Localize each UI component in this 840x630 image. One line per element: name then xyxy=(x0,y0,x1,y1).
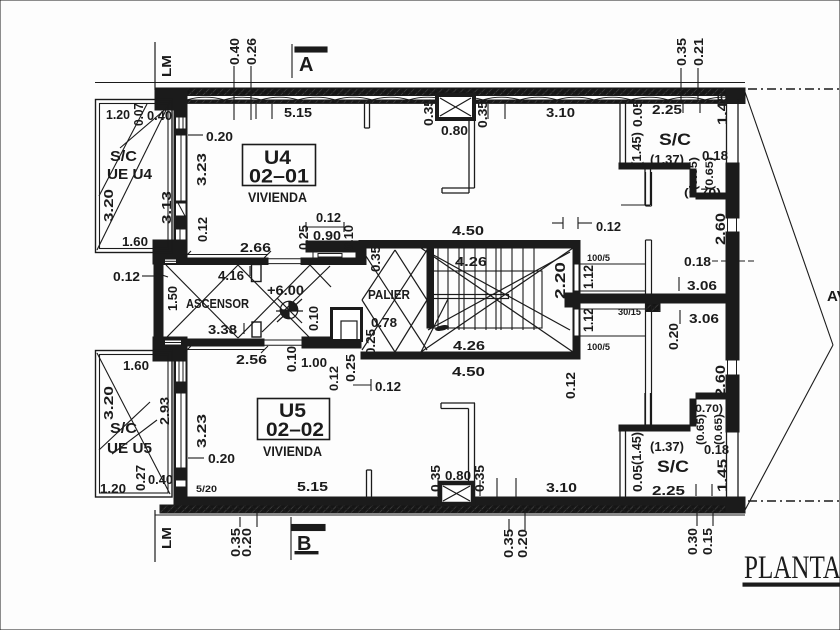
svg-text:(1.37): (1.37) xyxy=(650,439,684,454)
wall: right exterior upper segment xyxy=(726,163,739,218)
stair cross diagonals xyxy=(421,248,573,352)
ticks above bottom wall 5.15/3.10 xyxy=(496,478,498,497)
door leaf U5 xyxy=(252,322,261,337)
window sight lines right of stair (1.12 openings) xyxy=(580,264,646,336)
benchmark level symbol +6.00 xyxy=(276,298,303,323)
property line LM top xyxy=(95,82,745,84)
stair treads xyxy=(438,249,534,331)
svg-text:0.10: 0.10 xyxy=(284,346,299,372)
palier cross diagonals xyxy=(362,250,427,352)
door leaf U4 xyxy=(252,265,262,282)
dim line 2.66 xyxy=(187,254,268,256)
svg-text:4.26: 4.26 xyxy=(453,338,485,353)
svg-text:0.35: 0.35 xyxy=(421,99,436,126)
title underline xyxy=(743,583,840,586)
wall: pillar at palier corner xyxy=(357,241,366,265)
svg-text:0.30: 0.30 xyxy=(686,528,700,555)
svg-text:1.12: 1.12 xyxy=(580,308,596,332)
svg-text:U5: U5 xyxy=(279,401,306,422)
svg-text:(0.65): (0.65) xyxy=(713,414,725,445)
svg-text:2.60: 2.60 xyxy=(712,365,728,397)
svg-text:1.00: 1.00 xyxy=(301,355,327,370)
svg-text:3.23: 3.23 xyxy=(194,153,209,186)
svg-text:2.93: 2.93 xyxy=(157,397,172,425)
dim dash 0.20 U5 xyxy=(188,457,204,459)
vent slot corridor bottom-left xyxy=(165,340,182,345)
tick 2.25 top a xyxy=(682,101,684,113)
wall: corridor top right of door xyxy=(301,258,361,265)
dashed boundary top-right xyxy=(748,88,840,90)
svg-text:3.06: 3.06 xyxy=(689,311,719,326)
svg-text:LM: LM xyxy=(160,55,174,77)
svg-text:UE U5: UE U5 xyxy=(107,440,152,457)
column 30/15 hatched xyxy=(646,304,660,312)
svg-text:0.20: 0.20 xyxy=(516,529,530,558)
extension dash 0.30 bottom-right xyxy=(696,512,698,526)
window W4 U4 left xyxy=(176,229,187,240)
svg-text:(1.45): (1.45) xyxy=(629,132,644,166)
dim line 2.56 xyxy=(187,349,264,351)
elevator shaft cross diagonals xyxy=(166,265,331,338)
fixture line U4 bath xyxy=(621,204,650,206)
svg-text:0.25: 0.25 xyxy=(296,225,311,250)
svg-text:0.80: 0.80 xyxy=(441,123,468,138)
svg-text:0.90: 0.90 xyxy=(313,228,341,243)
ticks below top wall 5.15/3.10 xyxy=(487,104,489,119)
svg-text:5.15: 5.15 xyxy=(297,479,328,494)
window W2 U5 left double-line section xyxy=(176,393,187,468)
ticks 2.25 bottom S/C xyxy=(695,484,697,496)
extension dash 0.15 bottom-right xyxy=(712,512,714,526)
svg-text:0.27: 0.27 xyxy=(133,465,148,491)
svg-text:0.80: 0.80 xyxy=(445,468,471,483)
wall: top-left corner block xyxy=(155,88,187,110)
svg-text:0.20: 0.20 xyxy=(208,451,235,466)
svg-text:0.15: 0.15 xyxy=(701,528,715,555)
svg-text:0.20: 0.20 xyxy=(240,528,254,557)
svg-text:0.78: 0.78 xyxy=(371,315,397,330)
S/C UE U5 diagonal xyxy=(97,353,170,494)
wall: middle right separation xyxy=(573,294,734,303)
svg-text:0.35: 0.35 xyxy=(368,246,383,272)
svg-text:0.40: 0.40 xyxy=(227,38,242,65)
svg-text:0.12: 0.12 xyxy=(563,372,578,399)
wall: corridor left exterior xyxy=(154,253,163,345)
wall: S/C top-right step horizontal xyxy=(696,193,726,199)
stair direction arrow blob xyxy=(435,324,450,332)
svg-text:3.10: 3.10 xyxy=(546,105,575,120)
svg-text:3.38: 3.38 xyxy=(208,322,237,337)
svg-text:0.12: 0.12 xyxy=(375,379,401,394)
partition U-wall U5 (double) xyxy=(441,403,475,481)
svg-text:LM: LM xyxy=(160,527,174,549)
svg-text:0.35: 0.35 xyxy=(674,38,689,66)
svg-text:3.23: 3.23 xyxy=(194,414,209,448)
wall: niche band above palier door xyxy=(306,241,366,252)
mullion wall window zone (thin double) xyxy=(646,172,652,425)
svg-text:PLANTA: PLANTA xyxy=(744,550,840,586)
svg-text:0.10: 0.10 xyxy=(306,306,321,331)
tick 4.16 xyxy=(249,266,251,276)
dim line 0.12 niche U4 xyxy=(306,226,344,228)
stub wall below S/C top-right (double) xyxy=(645,169,651,205)
svg-text:2.60: 2.60 xyxy=(712,213,728,245)
stair inner guard rect xyxy=(429,271,543,328)
svg-text:0.25: 0.25 xyxy=(343,354,358,382)
svg-text:2.66: 2.66 xyxy=(240,240,271,255)
svg-text:0.18: 0.18 xyxy=(684,254,711,269)
section marker A line xyxy=(291,44,293,78)
stub wall U4 below top wall (double) xyxy=(365,103,370,128)
shaft box with X top (U4) xyxy=(437,95,474,119)
wall: right-bottom corner block xyxy=(726,497,745,512)
svg-text:100/5: 100/5 xyxy=(587,342,611,353)
wall: top-right corner block xyxy=(726,88,745,104)
dim dashes 0.18 middle right xyxy=(712,260,757,262)
extension line 0.20 bottom-mid xyxy=(524,511,526,530)
window right wall upper xyxy=(728,218,737,232)
svg-text:(1.37): (1.37) xyxy=(650,152,684,167)
svg-text:VIVIENDA: VIVIENDA xyxy=(248,189,307,205)
wall: right exterior middle segment xyxy=(726,232,739,360)
wall: bottom exterior inner leaf xyxy=(174,497,745,505)
svg-text:100/5: 100/5 xyxy=(587,253,611,264)
svg-text:0.35: 0.35 xyxy=(502,529,516,558)
svg-text:3.20: 3.20 xyxy=(101,386,116,420)
wall: stair right with windows xyxy=(573,241,580,359)
window W3 U5 left xyxy=(176,480,187,487)
svg-text:(0.70): (0.70) xyxy=(691,403,723,415)
wall: S/C top-right left partition (double) xyxy=(620,103,626,168)
svg-text:30/15: 30/15 xyxy=(618,307,642,318)
wall: right exterior hollow bottom (next to S/C) xyxy=(726,432,728,497)
wall: corridor top (U4 side) left of door xyxy=(163,258,268,265)
svg-text:0.05: 0.05 xyxy=(630,465,645,492)
svg-text:+6.00: +6.00 xyxy=(267,282,304,298)
wall: stair bottom xyxy=(361,352,580,359)
svg-text:02–02: 02–02 xyxy=(266,420,324,441)
svg-text:AV: AV xyxy=(827,288,840,305)
svg-text:1.20: 1.20 xyxy=(100,481,126,496)
stub wall above S/C bottom-right (double) xyxy=(645,393,651,425)
label U4 box xyxy=(243,145,316,186)
section marker A bar xyxy=(295,47,327,52)
svg-text:2.25: 2.25 xyxy=(652,483,685,498)
svg-text:(0.65): (0.65) xyxy=(695,414,707,445)
S/C UE U5 box border xyxy=(96,351,173,498)
svg-text:1.12: 1.12 xyxy=(580,265,596,289)
wall: S/C top-right step vertical xyxy=(690,169,696,197)
wall: right exterior hollow top (next to S/C) xyxy=(726,99,728,163)
tick 3.06 lower xyxy=(679,310,681,324)
svg-text:0.20: 0.20 xyxy=(666,323,681,350)
ticks 5.15 top interior xyxy=(255,104,257,119)
vent slot corridor top-left xyxy=(165,259,177,264)
svg-text:1.60: 1.60 xyxy=(122,234,148,249)
svg-text:2.56: 2.56 xyxy=(236,352,267,367)
svg-text:2.20: 2.20 xyxy=(552,262,569,299)
wall: U5 left exterior xyxy=(174,348,187,510)
extension line 0.21 top-right xyxy=(697,68,699,101)
svg-text:0.35: 0.35 xyxy=(475,101,490,128)
svg-text:3.20: 3.20 xyxy=(101,189,116,222)
window right wall lower xyxy=(728,360,737,375)
tick 3.06 upper xyxy=(678,277,680,291)
svg-text:S/C: S/C xyxy=(659,130,691,149)
svg-text:02–01: 02–01 xyxy=(249,167,309,188)
svg-text:A: A xyxy=(299,54,313,76)
svg-text:0.12: 0.12 xyxy=(195,217,210,242)
LM boundary tick bottom-left xyxy=(154,510,156,562)
svg-text:2.25: 2.25 xyxy=(652,102,682,117)
wall: right exterior lower-mid segment xyxy=(726,375,739,432)
label U5 box xyxy=(258,399,330,440)
duct box next to palier xyxy=(332,309,362,341)
svg-text:0.21: 0.21 xyxy=(691,38,706,66)
svg-text:ASCENSOR: ASCENSOR xyxy=(186,296,250,311)
svg-text:0.12: 0.12 xyxy=(316,210,341,225)
window W1 U5 left xyxy=(176,355,187,382)
insulation arcs in top wall cavity xyxy=(187,97,742,100)
svg-text:0.05: 0.05 xyxy=(630,100,645,127)
wall: U4-left bottom corner block xyxy=(153,240,187,264)
wall: U5-left top corner block xyxy=(153,337,187,361)
svg-text:0.20: 0.20 xyxy=(206,129,233,144)
svg-text:VIVIENDA: VIVIENDA xyxy=(263,443,322,459)
svg-text:S/C: S/C xyxy=(110,148,137,165)
extension line 0.20 bottom-left xyxy=(256,511,258,527)
tick 2.25 top b xyxy=(699,101,701,113)
svg-text:0.12: 0.12 xyxy=(596,219,621,234)
niche slot xyxy=(313,252,356,258)
shaft box with X bottom (U5) xyxy=(440,483,473,504)
svg-text:UE U4: UE U4 xyxy=(107,166,153,183)
door U5 entrance opening lines xyxy=(264,339,302,341)
projection diagonal from bottom-right corner xyxy=(745,345,833,510)
svg-text:0.40: 0.40 xyxy=(148,472,173,487)
wall: S/C bottom-right top xyxy=(619,425,690,431)
section marker B line xyxy=(290,517,292,560)
svg-text:1.60: 1.60 xyxy=(123,358,149,373)
wall: U4 left exterior xyxy=(174,88,187,253)
tick 3.38 xyxy=(243,323,245,334)
svg-text:4.26: 4.26 xyxy=(455,254,487,269)
S/C UE U4 diagonal xyxy=(97,102,170,250)
wall: corridor bottom (U5 side) left of door xyxy=(163,339,264,346)
underline under B xyxy=(295,552,318,554)
svg-text:S/C: S/C xyxy=(657,457,689,476)
extension line 0.35 top-right xyxy=(680,68,682,101)
svg-text:(0.65): (0.65) xyxy=(688,157,700,190)
svg-text:3.10: 3.10 xyxy=(546,480,577,495)
svg-text:0.07: 0.07 xyxy=(131,103,146,126)
svg-text:5/20: 5/20 xyxy=(196,484,217,495)
wall: S/C top-right bottom xyxy=(619,163,690,169)
extension line 0.26 top xyxy=(250,66,252,120)
leader 0.40 U4 xyxy=(120,107,168,148)
S/C UE U4 short diagonal xyxy=(99,104,147,196)
svg-text:3.13: 3.13 xyxy=(159,191,174,224)
svg-text:PALIER: PALIER xyxy=(368,287,411,302)
window W1 U4 left xyxy=(176,117,187,129)
dim 0.12 stair right xyxy=(552,222,563,224)
dashed boundary bottom-right xyxy=(748,500,840,502)
S/C UE U4 box border xyxy=(96,100,173,253)
leader 2.93 U5 xyxy=(112,420,157,454)
door U4 entrance opening lines xyxy=(268,258,301,260)
stub wall U5 above bottom wall (double) xyxy=(367,470,372,497)
window W2 U4 left double-line section xyxy=(176,135,187,201)
LM boundary tick top-left xyxy=(154,42,156,90)
wall: S/C bottom-right left partition (double) xyxy=(620,431,626,497)
svg-text:(1.45): (1.45) xyxy=(629,432,644,465)
svg-text:0.10: 0.10 xyxy=(341,225,356,250)
svg-text:1.20: 1.20 xyxy=(106,107,130,122)
svg-text:0.40: 0.40 xyxy=(147,108,172,123)
svg-text:0.35: 0.35 xyxy=(472,465,487,492)
dim dash 0.12 U5 xyxy=(353,384,371,386)
extension line 0.35 bottom-mid xyxy=(508,519,510,530)
wall: stair top xyxy=(359,241,580,249)
svg-text:4.50: 4.50 xyxy=(452,364,485,379)
svg-text:0.25: 0.25 xyxy=(363,329,378,355)
window W3 U4 left glazing xyxy=(176,203,187,216)
svg-text:3.06: 3.06 xyxy=(687,278,717,293)
wall: S/C bottom-right step vertical xyxy=(690,399,696,426)
property line bottom xyxy=(155,514,745,516)
svg-text:0.12: 0.12 xyxy=(327,366,341,391)
extension line 0.35 bottom-left xyxy=(239,517,241,527)
wall: top exterior inner leaf xyxy=(163,100,745,103)
S/C UE U5 short diagonal xyxy=(99,402,150,450)
svg-text:S/C: S/C xyxy=(110,420,137,437)
wall: top exterior hatched band xyxy=(155,88,745,96)
svg-text:(0.65): (0.65) xyxy=(704,157,716,190)
svg-text:1.45: 1.45 xyxy=(714,93,730,125)
projection diagonal from top-right corner xyxy=(745,92,833,345)
svg-text:0.35: 0.35 xyxy=(428,465,443,492)
ticks 5.15 bottom interior xyxy=(437,480,439,496)
tick corridor left wall xyxy=(156,273,168,277)
svg-text:4.16: 4.16 xyxy=(218,268,244,283)
svg-text:5.15: 5.15 xyxy=(284,105,312,120)
svg-text:4.50: 4.50 xyxy=(452,223,484,238)
wall: stair left xyxy=(427,248,434,328)
svg-text:1.50: 1.50 xyxy=(165,286,180,311)
svg-text:0.26: 0.26 xyxy=(244,38,259,65)
extension line 0.40 top xyxy=(233,66,235,120)
wall: middle block at stair xyxy=(565,293,580,307)
wall: bottom exterior hatched band xyxy=(160,505,745,513)
svg-text:1.45: 1.45 xyxy=(714,459,730,492)
counter L-wall U4 (double) xyxy=(442,119,475,193)
section marker B bar xyxy=(292,525,325,531)
dim dash 0.20 U4 xyxy=(188,134,203,136)
svg-text:0.12: 0.12 xyxy=(113,269,140,284)
wall: S/C bottom-right step horizontal xyxy=(696,393,726,399)
stair mid rail xyxy=(429,295,509,299)
wall: corridor bottom right of door xyxy=(302,337,361,348)
dim dash 0.12 corridor left xyxy=(142,275,157,277)
